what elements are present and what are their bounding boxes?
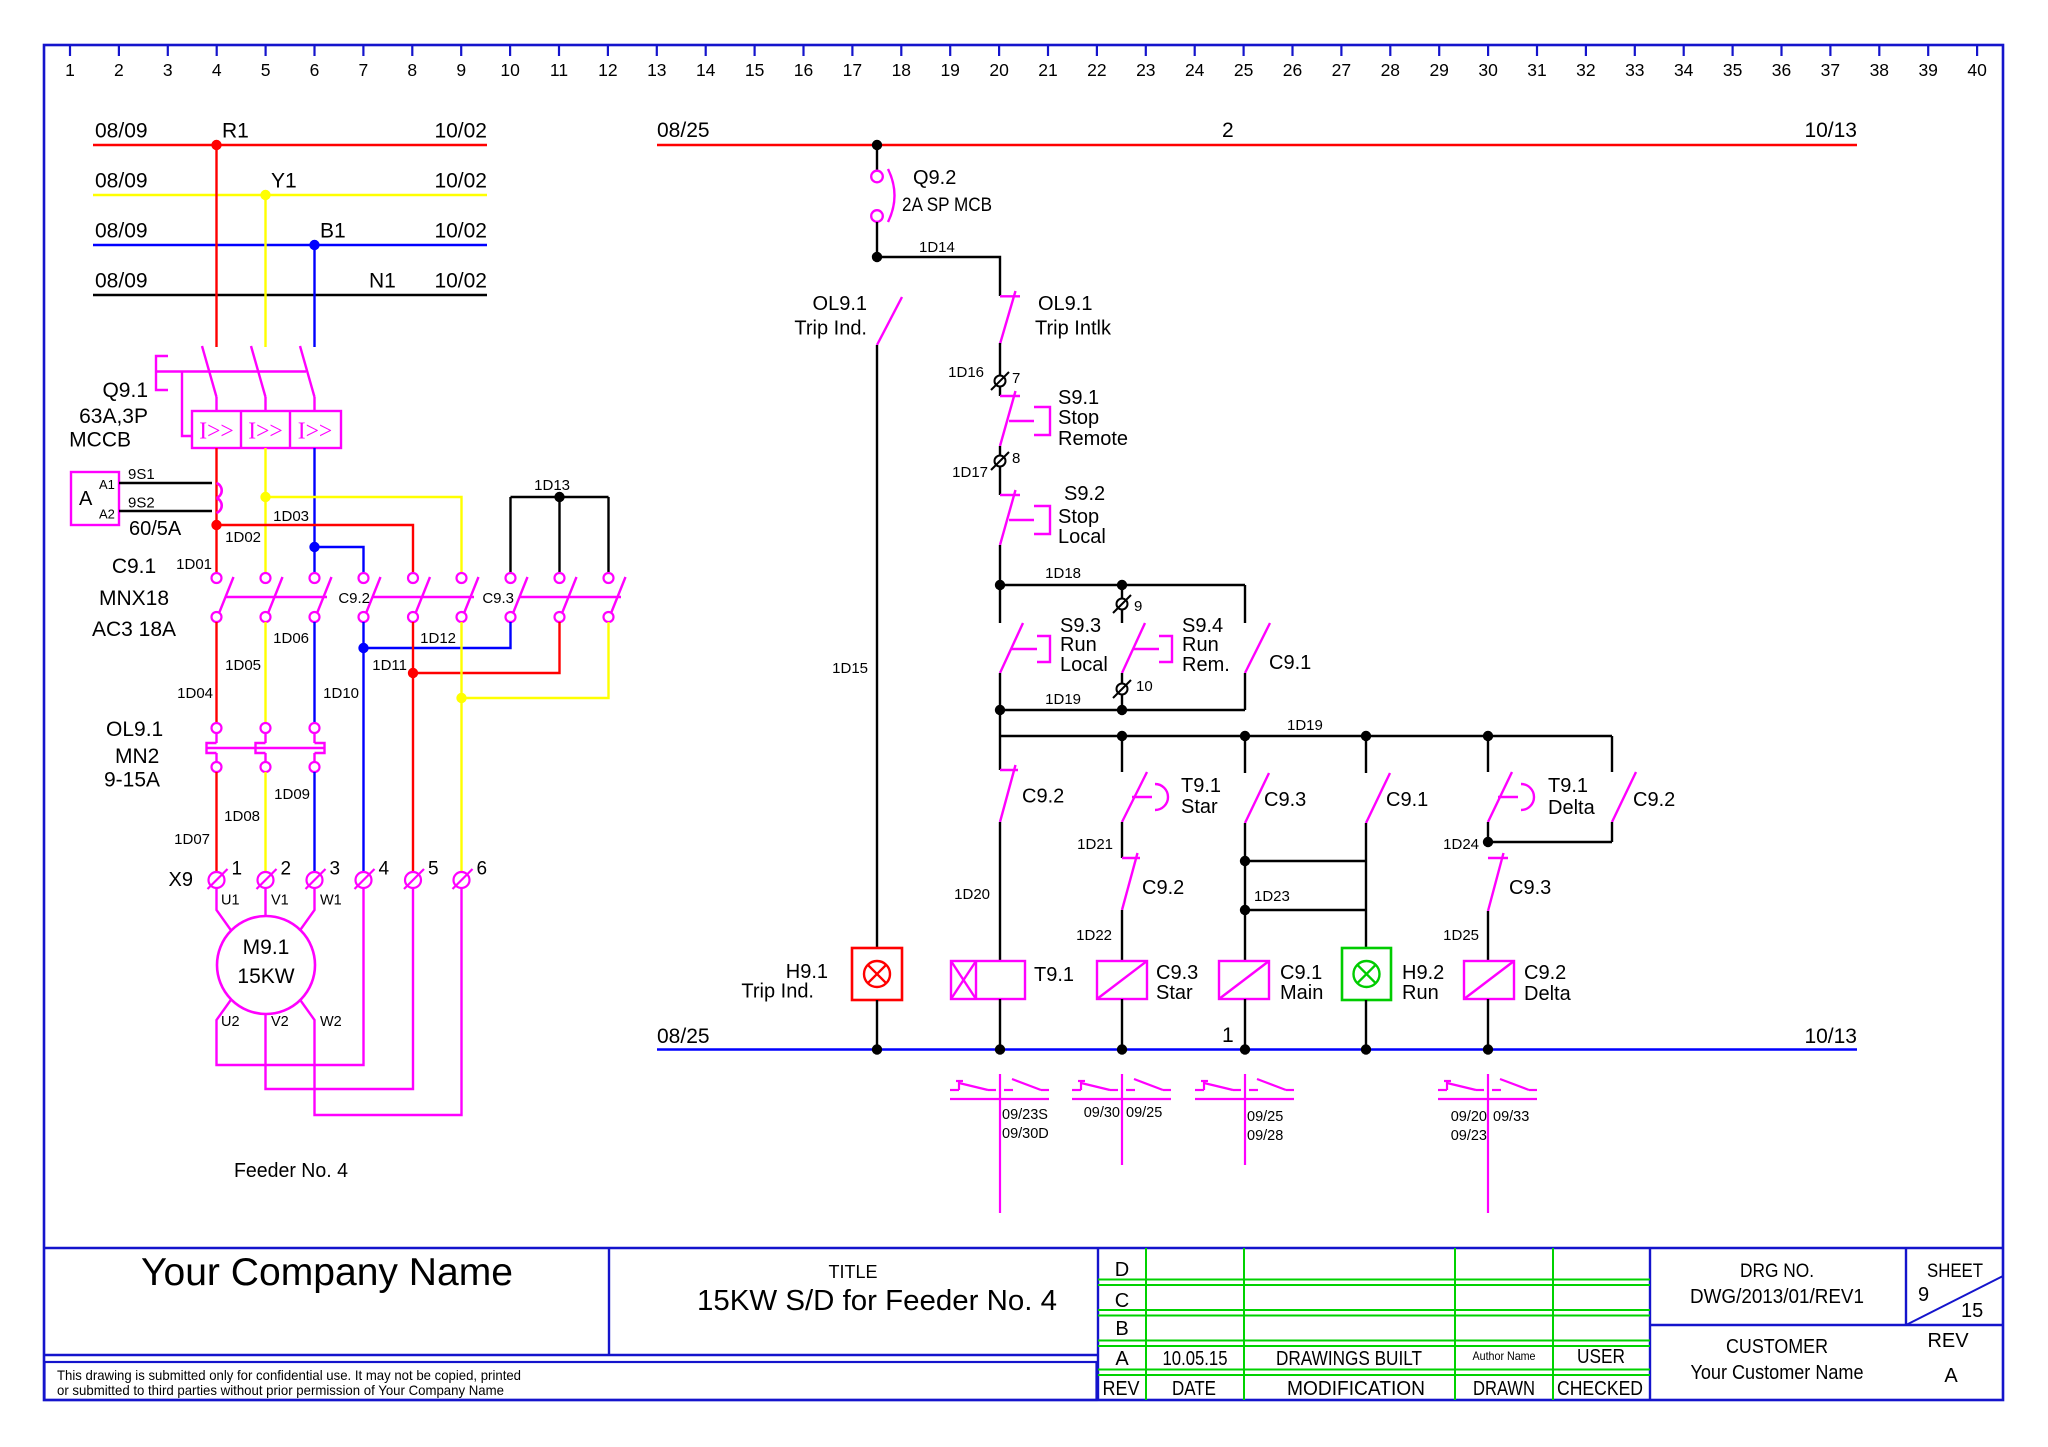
svg-text:35: 35	[1723, 60, 1742, 80]
svg-text:1D02: 1D02	[225, 529, 261, 546]
control bus L 08/25 top	[657, 119, 1857, 145]
svg-text:Y1: Y1	[271, 170, 297, 193]
title text	[697, 1262, 1057, 1317]
svg-text:8: 8	[1012, 450, 1020, 467]
svg-text:1D20: 1D20	[954, 886, 990, 903]
node 1D23 mesh	[1240, 823, 1366, 961]
svg-text:OL9.1: OL9.1	[813, 293, 867, 315]
svg-text:D: D	[1115, 1259, 1129, 1281]
svg-text:MN2: MN2	[115, 745, 159, 768]
svg-text:T9.1: T9.1	[1181, 775, 1221, 797]
svg-text:10/02: 10/02	[434, 170, 487, 193]
MCB Q9.2 2A SP	[871, 167, 992, 222]
wire	[999, 545, 1001, 585]
contact C9.2 aux (NO)	[1612, 736, 1675, 842]
svg-text:29: 29	[1429, 60, 1448, 80]
terminal 10	[1113, 678, 1153, 698]
svg-text:1D12: 1D12	[420, 630, 456, 647]
node 1D24	[1443, 822, 1612, 853]
svg-text:Rem.: Rem.	[1182, 654, 1230, 676]
contact OL9.1 Trip Ind. (NO)	[794, 293, 902, 345]
node 1D02 yellow tap	[225, 492, 461, 573]
node 1D01 blue tap	[176, 542, 363, 573]
wire 1D05 yellow	[264, 622, 266, 723]
svg-text:X9: X9	[169, 869, 193, 891]
svg-text:U1: U1	[221, 893, 240, 909]
svg-text:09/30D: 09/30D	[1002, 1126, 1049, 1142]
svg-text:MCCB: MCCB	[69, 429, 131, 452]
wire 1D25	[1443, 911, 1488, 961]
svg-text:9-15A: 9-15A	[104, 769, 160, 792]
wire	[1121, 695, 1123, 710]
svg-text:T9.1: T9.1	[1548, 775, 1588, 797]
cross-reference mirror C9.1	[1195, 1074, 1294, 1165]
contactor coil C9.2 Delta	[1464, 961, 1572, 1005]
svg-text:26: 26	[1283, 60, 1302, 80]
svg-text:1D21: 1D21	[1077, 836, 1113, 853]
svg-text:Delta: Delta	[1548, 797, 1596, 819]
svg-text:09/25: 09/25	[1247, 1109, 1283, 1125]
wire	[1365, 1000, 1367, 1050]
svg-text:10/13: 10/13	[1804, 119, 1857, 142]
svg-text:M9.1: M9.1	[243, 936, 290, 959]
svg-text:C9.2: C9.2	[1524, 962, 1566, 984]
svg-text:A1: A1	[99, 477, 115, 492]
svg-text:9S2: 9S2	[128, 495, 155, 512]
svg-text:1D06: 1D06	[273, 630, 309, 647]
svg-text:1D08: 1D08	[224, 808, 260, 825]
svg-text:08/09: 08/09	[95, 220, 148, 243]
contactor coil C9.1 Main	[1219, 961, 1323, 1004]
wire	[1121, 999, 1123, 1050]
contact C9.3 interlock (NO)	[1245, 773, 1306, 823]
svg-text:1D03: 1D03	[273, 508, 309, 525]
svg-text:C9.3: C9.3	[1156, 962, 1198, 984]
wire to Q9.2	[876, 145, 878, 171]
svg-text:N1: N1	[369, 270, 396, 293]
node 1D13 star point	[511, 477, 609, 573]
svg-text:DRAWN: DRAWN	[1473, 1378, 1535, 1400]
wire	[1365, 861, 1367, 948]
wire	[1365, 823, 1367, 861]
svg-text:Run: Run	[1402, 982, 1439, 1004]
wire	[1487, 736, 1489, 772]
svg-text:09/33: 09/33	[1493, 1109, 1529, 1125]
svg-text:Local: Local	[1058, 526, 1106, 548]
svg-text:Trip Ind.: Trip Ind.	[741, 981, 814, 1003]
svg-text:Remote: Remote	[1058, 428, 1128, 450]
svg-text:2A SP MCB: 2A SP MCB	[902, 195, 992, 216]
node junction on L bus	[872, 140, 882, 150]
svg-text:Stop: Stop	[1058, 407, 1099, 429]
svg-text:19: 19	[940, 60, 959, 80]
terminal strip X9	[169, 859, 488, 892]
svg-text:S9.1: S9.1	[1058, 387, 1099, 409]
svg-text:30: 30	[1478, 60, 1498, 80]
svg-text:09/20: 09/20	[1451, 1109, 1487, 1125]
contact C9.1 aux (NO)	[1366, 773, 1428, 823]
svg-text:Local: Local	[1060, 654, 1108, 676]
svg-text:32: 32	[1576, 60, 1595, 80]
svg-text:8: 8	[407, 60, 417, 80]
svg-text:5: 5	[428, 859, 439, 880]
wire 1D21	[1077, 822, 1122, 858]
svg-text:28: 28	[1381, 60, 1400, 80]
svg-text:1D13: 1D13	[534, 477, 570, 494]
svg-text:V1: V1	[271, 893, 289, 909]
svg-text:Author Name: Author Name	[1473, 1349, 1536, 1363]
svg-text:C9.2: C9.2	[1022, 786, 1064, 808]
wire motor lead W1	[300, 888, 315, 931]
svg-text:3: 3	[163, 60, 173, 80]
wire 1D02 yellow below MCCB	[264, 448, 266, 573]
svg-text:Q9.1: Q9.1	[102, 379, 148, 402]
node yellow link to delta pole	[456, 622, 608, 872]
svg-text:08/25: 08/25	[657, 119, 710, 142]
svg-text:1D11: 1D11	[372, 657, 407, 674]
svg-text:08/25: 08/25	[657, 1025, 710, 1048]
svg-text:MODIFICATION: MODIFICATION	[1287, 1378, 1425, 1400]
svg-text:Star: Star	[1181, 796, 1218, 818]
wire below Q9.2	[876, 222, 878, 257]
contactor contacts C9.2 power poles	[338, 573, 478, 622]
svg-text:17: 17	[843, 60, 862, 80]
svg-text:9S1: 9S1	[128, 466, 155, 483]
svg-text:09/23S: 09/23S	[1002, 1107, 1048, 1123]
wire	[1121, 585, 1123, 598]
lamp H9.1 Trip Ind.	[741, 948, 902, 1003]
wire	[1487, 999, 1489, 1050]
wire 1D09 blue	[313, 772, 315, 872]
wire	[999, 387, 1001, 396]
svg-text:3: 3	[330, 859, 341, 880]
svg-text:11: 11	[550, 60, 568, 80]
svg-text:Delta: Delta	[1524, 983, 1572, 1005]
svg-text:B1: B1	[320, 220, 346, 243]
svg-text:C9.2: C9.2	[1633, 789, 1675, 811]
svg-text:60/5A: 60/5A	[129, 518, 182, 540]
svg-text:1D15: 1D15	[832, 660, 868, 677]
node 1D12 blue link	[323, 622, 510, 872]
wire	[1365, 736, 1367, 773]
svg-text:15KW S/D for Feeder No. 4: 15KW S/D for Feeder No. 4	[697, 1285, 1057, 1317]
svg-text:1D24: 1D24	[1443, 836, 1479, 853]
svg-text:1: 1	[65, 60, 75, 80]
revision table text	[1103, 1259, 1644, 1400]
contactor coil C9.3 Star	[1097, 961, 1198, 1004]
svg-text:34: 34	[1674, 60, 1694, 80]
svg-text:1D25: 1D25	[1443, 927, 1479, 944]
svg-text:SHEET: SHEET	[1927, 1261, 1983, 1282]
svg-text:09/30: 09/30	[1084, 1105, 1120, 1121]
contactor contacts C9.3 power poles	[482, 573, 625, 622]
CT 60/5A	[129, 483, 222, 540]
svg-text:CHECKED: CHECKED	[1557, 1378, 1643, 1400]
svg-text:1D19: 1D19	[1287, 717, 1323, 734]
svg-text:36: 36	[1772, 60, 1791, 80]
wire	[999, 446, 1001, 455]
svg-text:13: 13	[647, 60, 666, 80]
motor M9.1 15KW	[217, 916, 315, 1014]
svg-text:C9.3: C9.3	[482, 590, 514, 607]
svg-text:REV: REV	[1103, 1378, 1141, 1400]
svg-text:1D04: 1D04	[177, 685, 213, 702]
svg-text:12: 12	[598, 60, 617, 80]
MCCB Q9.1 63A,3P	[69, 346, 341, 452]
svg-text:63A,3P: 63A,3P	[79, 405, 148, 428]
ammeter A	[71, 472, 119, 525]
wire 1D06 blue	[313, 622, 315, 723]
svg-text:08/09: 08/09	[95, 120, 148, 143]
svg-text:TITLE: TITLE	[829, 1262, 878, 1282]
svg-text:7: 7	[359, 60, 369, 80]
svg-text:H9.2: H9.2	[1402, 962, 1444, 984]
svg-text:2: 2	[114, 60, 124, 80]
terminal 9	[1113, 595, 1142, 615]
terminal 8	[952, 450, 1020, 481]
svg-text:5: 5	[261, 60, 271, 80]
svg-text:38: 38	[1870, 60, 1889, 80]
wire motor lead V1	[264, 888, 266, 916]
confidential note	[57, 1367, 521, 1398]
svg-text:DRAWINGS BUILT: DRAWINGS BUILT	[1276, 1348, 1422, 1370]
wire delta link V2 to terminal 5	[266, 888, 414, 1089]
wire	[999, 999, 1001, 1050]
svg-text:Your Customer Name: Your Customer Name	[1691, 1362, 1864, 1384]
wire delta link U2 to terminal 4	[217, 888, 364, 1065]
svg-text:C9.2: C9.2	[338, 590, 370, 607]
wire R phase drop	[215, 145, 217, 347]
svg-text:22: 22	[1087, 60, 1106, 80]
wire 9S2	[119, 510, 212, 512]
svg-text:1D22: 1D22	[1076, 927, 1112, 944]
svg-text:OL9.1: OL9.1	[106, 718, 163, 741]
svg-text:9: 9	[1134, 598, 1142, 615]
wire 1D03 blue below MCCB	[313, 448, 315, 573]
cross-reference mirror T9.1	[950, 1074, 1049, 1213]
svg-text:09/25: 09/25	[1126, 1105, 1162, 1121]
svg-text:S9.2: S9.2	[1064, 483, 1105, 505]
svg-text:DATE: DATE	[1172, 1378, 1216, 1400]
wire B phase drop	[313, 245, 315, 347]
terminal 7	[948, 364, 1020, 390]
node 1D11 red link	[372, 622, 559, 872]
svg-text:1D10: 1D10	[323, 685, 359, 702]
svg-text:10: 10	[1136, 678, 1153, 695]
svg-text:1D01: 1D01	[176, 556, 212, 573]
lamp H9.2 Run	[1342, 948, 1444, 1004]
wire to terminal 7	[999, 343, 1001, 375]
svg-text:10/02: 10/02	[434, 270, 487, 293]
svg-text:15: 15	[1961, 1300, 1983, 1322]
contact C9.3 interlock delta (NC)	[1488, 853, 1551, 911]
node 1D03 red tap	[211, 508, 413, 573]
svg-text:Run: Run	[1060, 634, 1097, 656]
svg-text:This drawing is submitted only: This drawing is submitted only for confi…	[57, 1367, 521, 1383]
svg-text:Feeder No. 4: Feeder No. 4	[234, 1160, 348, 1182]
wire	[999, 467, 1001, 495]
svg-text:CUSTOMER: CUSTOMER	[1726, 1336, 1828, 1358]
svg-text:Star: Star	[1156, 982, 1193, 1004]
svg-text:1: 1	[232, 859, 243, 880]
contact C9.1 holding (NO)	[1245, 585, 1311, 710]
svg-text:18: 18	[892, 60, 911, 80]
wire 1D22	[1076, 910, 1122, 961]
svg-text:6: 6	[310, 60, 320, 80]
node 1D14	[872, 239, 1000, 296]
svg-text:Stop: Stop	[1058, 506, 1099, 528]
svg-text:MNX18: MNX18	[99, 587, 169, 610]
svg-text:09/28: 09/28	[1247, 1128, 1283, 1144]
phase bus B1	[93, 220, 487, 246]
wire 1D01 red below MCCB	[215, 448, 217, 573]
svg-text:4: 4	[212, 60, 222, 80]
svg-text:37: 37	[1821, 60, 1840, 80]
svg-text:40: 40	[1967, 60, 1987, 80]
sheet block	[1918, 1261, 1983, 1387]
svg-text:C9.2: C9.2	[1142, 877, 1184, 899]
wire 1D08 yellow	[264, 772, 266, 872]
svg-text:AC3 18A: AC3 18A	[92, 618, 176, 641]
contact C9.2 interlock (NC)	[1000, 765, 1064, 822]
svg-text:1D07: 1D07	[174, 831, 210, 848]
svg-text:10/13: 10/13	[1804, 1025, 1857, 1048]
svg-text:C9.3: C9.3	[1264, 789, 1306, 811]
wire	[1121, 673, 1123, 683]
svg-text:27: 27	[1332, 60, 1351, 80]
svg-text:39: 39	[1918, 60, 1937, 80]
svg-text:C9.1: C9.1	[1386, 789, 1428, 811]
pushbutton S9.1 Stop Remote (NC)	[1000, 387, 1128, 450]
svg-text:2: 2	[281, 859, 292, 880]
wire Y phase drop	[264, 195, 266, 347]
svg-text:15: 15	[745, 60, 764, 80]
phase bus Y1	[93, 170, 487, 196]
svg-text:Q9.2: Q9.2	[913, 167, 956, 189]
svg-text:24: 24	[1185, 60, 1205, 80]
wire 1D15	[832, 345, 877, 948]
svg-text:09/23: 09/23	[1451, 1128, 1487, 1144]
svg-text:A: A	[79, 488, 93, 510]
wire 9S1	[119, 482, 212, 484]
svg-text:W2: W2	[320, 1014, 342, 1030]
phase bus R1	[93, 120, 487, 146]
svg-text:USER: USER	[1577, 1346, 1625, 1368]
revision table grid	[1098, 1248, 1650, 1400]
svg-text:C9.1: C9.1	[112, 555, 156, 578]
phase bus N1	[93, 270, 487, 296]
wire	[999, 585, 1001, 623]
contact OL9.1 Trip Intlk (NC)	[1000, 291, 1112, 344]
svg-text:REV: REV	[1927, 1330, 1969, 1352]
wire 1D07 red	[215, 772, 217, 872]
svg-text:or submitted to third parties: or submitted to third parties without pr…	[57, 1382, 504, 1398]
svg-text:2: 2	[1222, 119, 1234, 142]
wire motor lead U1	[217, 888, 232, 931]
svg-text:R1: R1	[222, 120, 249, 143]
svg-text:T9.1: T9.1	[1034, 964, 1074, 986]
svg-text:C9.1: C9.1	[1280, 962, 1322, 984]
pushbutton S9.3 Run Local (NO)	[1000, 615, 1108, 676]
wire 1D20	[954, 822, 1000, 961]
svg-text:9: 9	[1918, 1284, 1929, 1306]
svg-text:A: A	[1115, 1348, 1129, 1370]
node 1D19 bus	[1000, 717, 1612, 741]
svg-text:6: 6	[477, 859, 488, 880]
node 1D19 upper	[995, 691, 1245, 736]
svg-text:B: B	[1115, 1318, 1128, 1340]
wire delta link W2 to terminal 6	[300, 888, 462, 1115]
svg-text:14: 14	[696, 60, 716, 80]
wire	[999, 736, 1001, 770]
wire	[999, 673, 1001, 710]
svg-text:08/09: 08/09	[95, 270, 148, 293]
svg-text:10: 10	[500, 60, 520, 80]
svg-text:20: 20	[989, 60, 1009, 80]
svg-text:A: A	[1944, 1365, 1958, 1387]
control bus N 08/25 bottom	[657, 1024, 1857, 1055]
svg-text:10/02: 10/02	[434, 120, 487, 143]
svg-text:1D09: 1D09	[274, 786, 310, 803]
svg-text:Trip Ind.: Trip Ind.	[794, 318, 867, 340]
svg-text:1: 1	[1222, 1024, 1234, 1047]
svg-text:C9.3: C9.3	[1509, 877, 1551, 899]
wire	[1244, 736, 1246, 773]
svg-text:15KW: 15KW	[237, 965, 294, 988]
wire	[1121, 610, 1123, 623]
svg-text:W1: W1	[320, 893, 342, 909]
timer coil T9.1	[951, 961, 1074, 999]
cross-reference mirror C9.2	[1438, 1074, 1537, 1213]
svg-text:U2: U2	[221, 1014, 240, 1030]
svg-text:4: 4	[379, 859, 390, 880]
svg-text:10.05.15: 10.05.15	[1163, 1348, 1228, 1370]
svg-text:1D14: 1D14	[919, 239, 955, 256]
svg-text:1D18: 1D18	[1045, 565, 1081, 582]
svg-text:V2: V2	[271, 1014, 289, 1030]
svg-text:I>>: I>>	[199, 419, 234, 445]
svg-text:25: 25	[1234, 60, 1253, 80]
svg-text:DWG/2013/01/REV1: DWG/2013/01/REV1	[1690, 1286, 1864, 1308]
svg-text:I>>: I>>	[248, 419, 283, 445]
title block frame	[44, 1248, 2003, 1400]
svg-text:33: 33	[1625, 60, 1644, 80]
svg-text:A2: A2	[99, 507, 115, 522]
svg-text:16: 16	[794, 60, 813, 80]
svg-text:OL9.1: OL9.1	[1038, 293, 1092, 315]
node 1D18	[995, 565, 1245, 590]
svg-text:C: C	[1115, 1290, 1129, 1312]
svg-text:23: 23	[1136, 60, 1155, 80]
svg-text:9: 9	[456, 60, 466, 80]
svg-text:Trip Intlk: Trip Intlk	[1035, 318, 1112, 340]
svg-text:Main: Main	[1280, 982, 1323, 1004]
svg-text:7: 7	[1012, 370, 1020, 387]
svg-text:21: 21	[1038, 60, 1057, 80]
svg-text:1D17: 1D17	[952, 464, 988, 481]
contactor main contacts C9.1	[92, 555, 332, 641]
ruler column ticks and numbers	[65, 45, 1987, 80]
svg-text:10/02: 10/02	[434, 220, 487, 243]
svg-text:I>>: I>>	[298, 419, 333, 445]
overload relay OL9.1 MN2 9-15A	[104, 718, 325, 792]
wire	[876, 1000, 878, 1050]
wire	[1121, 736, 1123, 772]
svg-text:08/09: 08/09	[95, 170, 148, 193]
svg-text:Your Company Name: Your Company Name	[141, 1251, 513, 1294]
contact T9.1 Delta timed (NO)	[1488, 772, 1596, 822]
pushbutton S9.2 Stop Local (NC)	[1000, 483, 1106, 548]
